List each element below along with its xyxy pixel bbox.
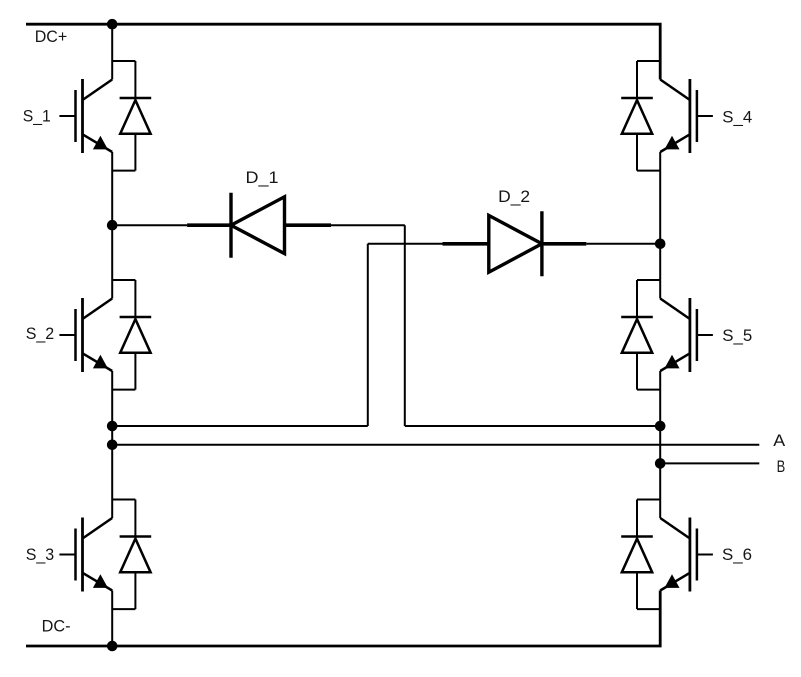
junction dot node P1 [107, 220, 118, 231]
antiparallel diode of S_1 [112, 61, 151, 171]
wire: D_1 anode lead thin [331, 224, 405, 226]
wire: D_1 anode lead thick [285, 223, 332, 227]
junction dot node N2 [655, 421, 666, 432]
wire: D_1 cathode lead thick [187, 223, 231, 227]
junction dot DC- / left leg [107, 641, 118, 652]
junction dot DC+ / left leg [107, 19, 118, 30]
diode D_1 [231, 193, 285, 258]
wire: node P1 to D_1 cathode thin [112, 224, 187, 226]
transistor S_3 (IGBT) [59, 518, 112, 592]
antiparallel diode of S_4 [621, 61, 660, 171]
svg-text:S_1: S_1 [23, 107, 51, 126]
svg-text:S_4: S_4 [722, 107, 752, 126]
transistor S_1 (IGBT) [59, 79, 112, 153]
transistor S_2 (IGBT) [59, 298, 112, 372]
wire: D_2 cathode to node P2 [586, 243, 660, 245]
junction dot node P2 [655, 239, 666, 250]
svg-text:D_1: D_1 [246, 168, 279, 187]
antiparallel diode of S_3 [112, 500, 151, 610]
svg-text:B: B [777, 457, 786, 476]
svg-text:DC-: DC- [42, 617, 71, 636]
transistor S_4 (IGBT) [660, 79, 713, 153]
wire: output A [112, 444, 759, 446]
svg-text:D_2: D_2 [498, 187, 530, 206]
wire: node N1 to node A / S_3 collector [111, 426, 113, 518]
wire: S_5 emitter through node N2/B to S_6 collector [659, 371, 661, 518]
wire: D_2 anode lead thick [443, 242, 489, 246]
wire: S_1 emitter to node P1 [111, 152, 113, 225]
wire: S_4 emitter to node P2 [659, 152, 661, 244]
antiparallel diode of S_6 [621, 500, 660, 610]
wire: output B [660, 462, 759, 464]
junction dot node N1 [107, 421, 118, 432]
wire: riser to D_2 anode [367, 244, 369, 426]
wire: node N1 to D_2 anode branch [112, 425, 368, 427]
svg-text:S_6: S_6 [722, 545, 752, 564]
svg-text:S_5: S_5 [722, 326, 752, 345]
svg-text:DC+: DC+ [35, 27, 68, 46]
wire: left leg DC+ to S_1 collector [111, 24, 113, 79]
wire: S_2 emitter to node N1 [111, 371, 113, 426]
antiparallel diode of S_5 [621, 280, 660, 390]
wire: node P2 to S_5 collector [659, 244, 661, 299]
transistor S_6 (IGBT) [660, 518, 713, 592]
wire: D_2 anode lead thin [368, 243, 443, 245]
wire: node P1 to S_2 collector [111, 225, 113, 298]
svg-text:A: A [773, 431, 786, 450]
DC- rail (with corner into right leg) [26, 591, 660, 647]
DC+ rail (with corner into right leg) [26, 24, 660, 79]
wire: S_3 emitter to DC- rail [111, 591, 113, 647]
wire: D_2 cathode lead thick [542, 242, 586, 246]
wire: D_1 branch to node N2 [405, 425, 660, 427]
diode D_2 [489, 211, 542, 276]
junction dot node B tap [655, 458, 666, 469]
antiparallel diode of S_2 [112, 280, 151, 390]
svg-text:S_3: S_3 [26, 545, 55, 564]
junction dot node A tap [107, 440, 118, 451]
svg-text:S_2: S_2 [26, 324, 55, 343]
wire: D_1 anode drop [404, 225, 406, 426]
transistor S_5 (IGBT) [660, 298, 713, 372]
